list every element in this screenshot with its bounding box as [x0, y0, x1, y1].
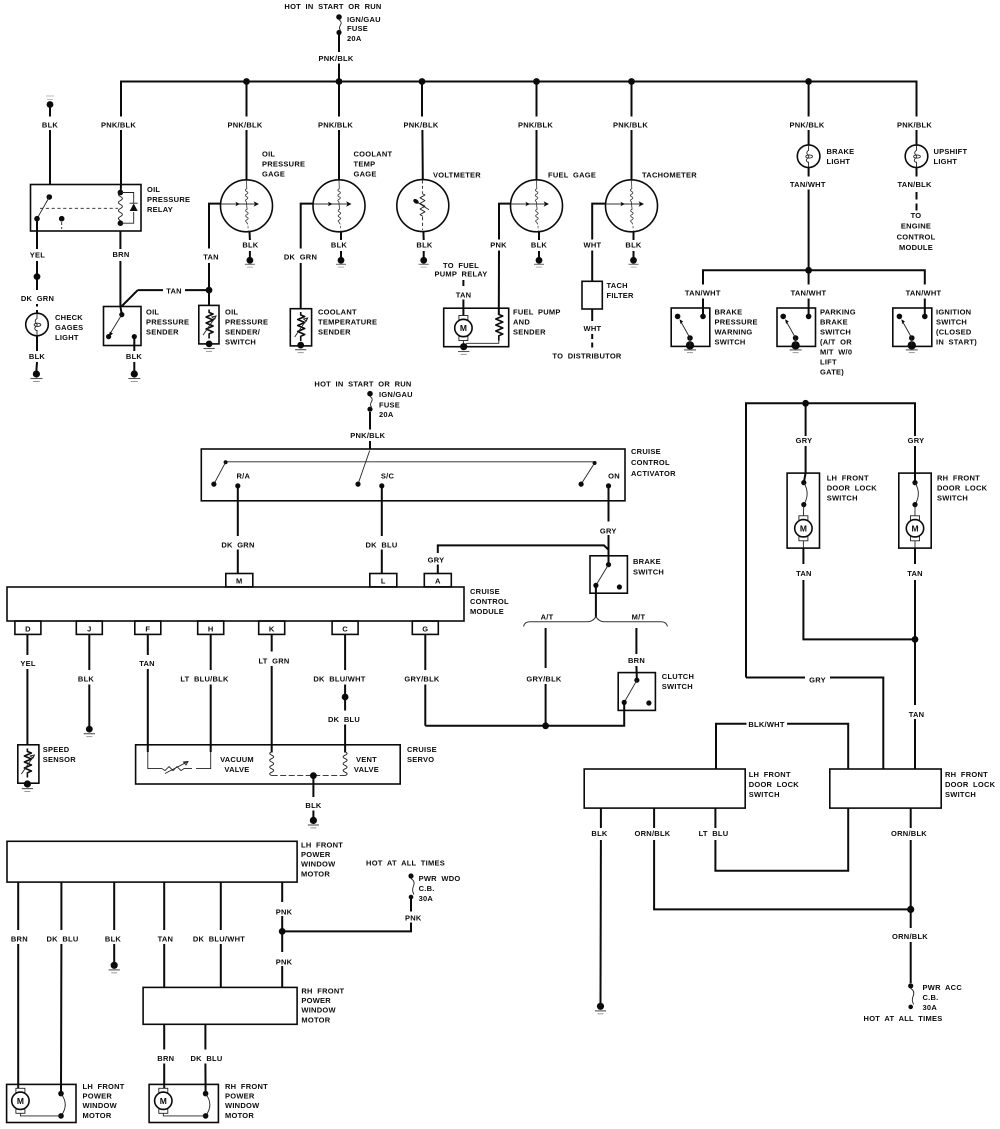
wire BLK below coolant gauge: [340, 232, 342, 258]
switch interior parking: [780, 308, 811, 353]
svg-text:S/C: S/C: [381, 472, 395, 481]
wire BLK below oil gauge: [249, 232, 251, 258]
box cruise control module: [7, 587, 464, 621]
svg-text:M: M: [236, 577, 243, 586]
box clutch switch: [618, 673, 655, 711]
ground oil sender: [128, 370, 140, 381]
sender switch contact bottom: [106, 334, 111, 339]
vent valve bottom link: [272, 775, 345, 777]
svg-text:DOOR LOCK: DOOR LOCK: [749, 780, 800, 789]
svg-text:PUMP RELAY: PUMP RELAY: [434, 270, 487, 279]
svg-text:SWITCH: SWITCH: [937, 494, 968, 503]
node coolant sender ground: [297, 342, 304, 349]
ground coolant sender: [295, 349, 306, 351]
gauge fuel: [511, 180, 563, 232]
motor RH door lock: [906, 516, 923, 541]
varrow coolant sender: [295, 318, 308, 337]
RH window blade arc: [206, 1094, 210, 1116]
wire GRY/BLK from G: [424, 634, 426, 725]
svg-text:OIL: OIL: [225, 308, 238, 317]
breaker PWR ACC C.B. 30A: [908, 983, 914, 1009]
wire BLK below tachometer: [633, 232, 635, 258]
svg-text:C.B.: C.B.: [923, 993, 939, 1002]
relay aux dash link: [61, 222, 63, 229]
svg-text:PARKING: PARKING: [820, 308, 856, 317]
brake switch contact mid: [593, 583, 598, 588]
node TAN junction: [206, 287, 213, 294]
svg-text:GRY/BLK: GRY/BLK: [404, 675, 440, 684]
wire brake switch to brace: [595, 585, 597, 617]
terminal D: [15, 621, 41, 634]
ground oil sender/switch: [204, 348, 215, 350]
wire LT BLU/BLK from H: [210, 634, 212, 752]
motor RH window: [155, 1088, 172, 1113]
svg-text:LH FRONT: LH FRONT: [83, 1082, 125, 1091]
svg-text:GAGE: GAGE: [262, 170, 285, 179]
vacuum valve arrow: [165, 762, 188, 774]
svg-text:WINDOW: WINDOW: [301, 1006, 336, 1015]
svg-text:TAN: TAN: [907, 569, 923, 578]
svg-text:TAN/WHT: TAN/WHT: [790, 180, 826, 189]
resistor oil sender/switch: [206, 310, 213, 339]
node BLK splice (top left): [47, 101, 54, 108]
LH window bottom link: [20, 1113, 61, 1116]
wire DK BLU to vent valve: [344, 697, 346, 753]
wire dashed to ECM: [916, 192, 918, 211]
relay mech dashed link: [40, 207, 118, 209]
wire YEL to splice: [36, 261, 38, 277]
node window BLK ground: [111, 962, 118, 969]
ground coolant gauge: [336, 257, 346, 267]
wire BRN to oil sender: [120, 261, 121, 315]
wire oil gauge drop: [246, 82, 248, 181]
svg-text:GRY: GRY: [908, 436, 925, 445]
svg-text:GAGE: GAGE: [354, 170, 377, 179]
svg-text:BLK: BLK: [78, 675, 94, 684]
wire motor to ground node: [462, 341, 464, 347]
svg-text:BRN: BRN: [113, 250, 130, 259]
vacuum valve frame: [148, 752, 211, 769]
svg-text:UPSHIFT: UPSHIFT: [934, 147, 968, 156]
relay switch blade: [37, 197, 49, 219]
fuse IGN/GAU 20A (cruise): [367, 391, 373, 412]
wire DK BLU (rh window): [204, 1024, 206, 1093]
svg-text:R/A: R/A: [236, 472, 250, 481]
svg-text:TO DISTRIBUTOR: TO DISTRIBUTOR: [552, 352, 622, 361]
relay coil top node: [118, 190, 124, 196]
svg-text:HOT IN START OR RUN: HOT IN START OR RUN: [314, 380, 411, 389]
LH window blade arc: [61, 1094, 65, 1116]
sender blade arrowhead: [109, 332, 113, 337]
wire PNK to fuel sender resistor: [498, 251, 500, 315]
wire BRN from relay: [119, 231, 121, 249]
svg-text:VALVE: VALVE: [354, 765, 379, 774]
svg-text:DK GRN: DK GRN: [284, 253, 317, 262]
svg-text:K: K: [269, 625, 275, 634]
svg-text:COOLANT: COOLANT: [354, 150, 393, 159]
svg-text:BRAKE: BRAKE: [633, 557, 661, 566]
RH window motor top link: [163, 1084, 165, 1088]
svg-text:G: G: [422, 625, 428, 634]
svg-text:30A: 30A: [419, 894, 434, 903]
clutch contact top: [634, 678, 639, 683]
svg-text:POWER: POWER: [301, 850, 331, 859]
wire GRY from A terminal: [438, 545, 609, 573]
wire WHT below tach filter: [591, 309, 593, 321]
wire LT BLU link: [715, 808, 848, 871]
svg-text:RH FRONT: RH FRONT: [945, 770, 988, 779]
svg-text:GRY: GRY: [809, 676, 826, 685]
wire M/T BRN drop: [635, 628, 638, 680]
svg-text:PWR WDO: PWR WDO: [419, 874, 461, 883]
node TAN junction: [912, 636, 919, 643]
svg-text:SENDER: SENDER: [146, 328, 179, 337]
ground servo: [308, 824, 319, 826]
svg-text:BLK: BLK: [105, 935, 121, 944]
wire check light to ground: [35, 336, 38, 371]
svg-text:BLK/WHT: BLK/WHT: [748, 720, 784, 729]
svg-text:FUEL PUMP: FUEL PUMP: [513, 308, 561, 317]
wire TAN from oil gauge: [209, 204, 221, 249]
wire BLK (lh window ground): [113, 882, 115, 962]
svg-text:ORN/BLK: ORN/BLK: [635, 829, 671, 838]
terminal J: [76, 621, 102, 634]
wire GRY drop LH: [805, 403, 807, 436]
svg-text:IGN/GAU: IGN/GAU: [379, 390, 413, 399]
node S/C blade tip: [355, 482, 360, 487]
wire LT GRN from K: [271, 634, 273, 752]
node fuel pump ground: [460, 343, 467, 350]
svg-text:GAGES: GAGES: [55, 323, 83, 332]
wire TAN down to RH lower switch: [914, 639, 916, 769]
node speed sensor ground: [24, 780, 31, 787]
svg-text:WHT: WHT: [583, 241, 601, 250]
relay diode branch: [120, 193, 133, 224]
svg-text:LH FRONT: LH FRONT: [301, 841, 343, 850]
svg-text:FUEL GAGE: FUEL GAGE: [548, 171, 596, 180]
ground speed sensor: [22, 788, 33, 790]
svg-text:PNK/BLK: PNK/BLK: [403, 121, 438, 130]
box brake switch: [590, 556, 627, 593]
box cruise control activator: [201, 449, 625, 501]
svg-text:TAN/WHT: TAN/WHT: [906, 289, 942, 298]
svg-text:BLK: BLK: [625, 241, 641, 250]
svg-text:DK BLU/WHT: DK BLU/WHT: [193, 935, 245, 944]
wire DK BLU/WHT (window link): [220, 882, 222, 987]
svg-text:CRUISE: CRUISE: [470, 587, 500, 596]
node J ground: [86, 726, 93, 733]
wire TAN from LH lock: [803, 548, 915, 639]
svg-text:TEMP: TEMP: [354, 160, 376, 169]
svg-text:GRY: GRY: [428, 556, 445, 565]
wire TAN from RH lock: [914, 548, 916, 639]
svg-text:LT BLU: LT BLU: [699, 829, 729, 838]
ground oil gauge: [245, 257, 255, 267]
node YEL/DK GRN splice: [34, 273, 41, 280]
LH window motor top link: [17, 1084, 19, 1088]
svg-text:BRN: BRN: [11, 935, 28, 944]
node ON blade tip: [579, 482, 584, 487]
svg-text:GRY/BLK: GRY/BLK: [526, 675, 562, 684]
svg-text:RELAY: RELAY: [147, 205, 173, 214]
svg-text:TACHOMETER: TACHOMETER: [642, 171, 697, 180]
switch interior ignition: [897, 308, 928, 353]
svg-text:DK GRN: DK GRN: [221, 541, 254, 550]
node bus right end: [593, 461, 597, 465]
ground voltmeter: [419, 257, 429, 267]
wire PNK lower (window): [281, 931, 283, 987]
terminal H: [198, 621, 224, 634]
svg-text:DOOR LOCK: DOOR LOCK: [827, 484, 878, 493]
svg-text:SENDER: SENDER: [318, 328, 351, 337]
ground window BLK: [109, 969, 120, 971]
wire GRY LH to switch: [804, 446, 806, 483]
svg-text:VOLTMETER: VOLTMETER: [433, 171, 481, 180]
node bus junction oil gauge: [243, 78, 250, 85]
relay box oil pressure relay: [31, 185, 142, 232]
svg-text:LIGHT: LIGHT: [934, 157, 958, 166]
wire BLK/WHT link: [716, 724, 848, 769]
svg-text:TO: TO: [911, 211, 922, 220]
svg-text:BRAKE: BRAKE: [820, 318, 848, 327]
svg-text:TAN/BLK: TAN/BLK: [898, 180, 932, 189]
relay aux contact: [59, 216, 65, 222]
wire dashed to check light: [36, 304, 38, 314]
svg-text:BLK: BLK: [29, 352, 45, 361]
node bus left end: [224, 460, 228, 464]
wire A/T GRY/BLK drop: [545, 628, 547, 726]
vacuum valve element: [162, 767, 192, 771]
svg-text:SWITCH: SWITCH: [820, 328, 851, 337]
svg-text:BLK: BLK: [242, 241, 258, 250]
wire brake light drop: [808, 82, 810, 146]
svg-text:WINDOW: WINDOW: [83, 1101, 118, 1110]
svg-text:SENSOR: SENSOR: [43, 755, 77, 764]
svg-text:TAN: TAN: [203, 253, 219, 262]
ground fuel gauge: [534, 257, 544, 267]
brake switch blade: [596, 565, 609, 586]
coil vent valve right: [343, 752, 347, 776]
terminal F: [135, 621, 161, 634]
svg-text:M/T: M/T: [632, 613, 646, 622]
svg-text:CONTROL: CONTROL: [470, 597, 509, 606]
box RH front door lock switch (lower): [830, 769, 941, 808]
svg-text:RH FRONT: RH FRONT: [937, 474, 980, 483]
svg-text:ENGINE: ENGINE: [901, 222, 931, 231]
ground fuel pump: [458, 351, 469, 353]
box brake pressure warning switch: [671, 308, 710, 346]
clutch blade: [624, 680, 637, 702]
node bus junction tachometer: [628, 78, 635, 85]
resistor coolant sender: [298, 312, 305, 341]
terminal M: [226, 574, 253, 587]
node bus junction brake light: [805, 78, 812, 85]
gauge voltmeter: [397, 180, 449, 232]
wire ORN/BLK from RH lower: [910, 808, 912, 909]
svg-text:C: C: [342, 625, 348, 634]
svg-text:PRESSURE: PRESSURE: [147, 195, 190, 204]
lamp check gages light: [26, 313, 49, 336]
wire BLK from servo: [312, 776, 314, 817]
svg-text:L: L: [381, 577, 386, 586]
svg-text:MOTOR: MOTOR: [301, 1015, 330, 1024]
svg-text:WINDOW: WINDOW: [225, 1101, 260, 1110]
RH lock contact top: [912, 480, 917, 485]
terminal K: [259, 621, 285, 634]
wire TAN from F: [147, 634, 149, 752]
wire fuel gauge drop: [536, 82, 538, 181]
svg-text:ON: ON: [608, 472, 620, 481]
box RH front door lock switch (motor): [899, 473, 931, 548]
svg-text:DK BLU/WHT: DK BLU/WHT: [313, 675, 365, 684]
activator internal bus: [226, 461, 595, 463]
svg-text:TAN: TAN: [796, 569, 812, 578]
svg-text:FUSE: FUSE: [347, 24, 368, 33]
wire door lock feed bus: [746, 403, 915, 677]
switch blade S/C: [358, 451, 370, 485]
sender switch blade: [111, 315, 122, 333]
svg-text:SENDER/: SENDER/: [225, 328, 261, 337]
wire fuel sender bottom link: [464, 341, 499, 347]
svg-text:OIL: OIL: [146, 308, 159, 317]
wire coolant gauge drop: [338, 82, 340, 181]
varrow oil sender/switch: [203, 316, 216, 335]
svg-text:DOOR LOCK: DOOR LOCK: [937, 484, 988, 493]
svg-text:MODULE: MODULE: [470, 607, 504, 616]
wire BRN (rh window): [163, 1024, 165, 1088]
varrow speed sensor: [21, 755, 34, 774]
svg-text:BRAKE: BRAKE: [827, 147, 855, 156]
wire dashed fuel pump relay: [462, 280, 464, 286]
ground check gages light: [30, 370, 42, 381]
svg-text:PNK/BLK: PNK/BLK: [101, 121, 136, 130]
svg-text:SERVO: SERVO: [407, 755, 434, 764]
RH window contact top: [203, 1091, 209, 1097]
svg-text:CONTROL: CONTROL: [631, 458, 670, 467]
svg-text:LIFT: LIFT: [820, 358, 837, 367]
svg-text:MOTOR: MOTOR: [225, 1111, 254, 1120]
svg-text:PNK: PNK: [405, 914, 422, 923]
svg-text:PNK: PNK: [490, 241, 507, 250]
svg-text:HOT AT ALL TIMES: HOT AT ALL TIMES: [366, 859, 445, 868]
box RH front power window motor (switch assembly): [143, 987, 297, 1024]
svg-text:OIL: OIL: [262, 150, 275, 159]
node R/A output: [235, 483, 240, 488]
svg-text:IN START): IN START): [936, 338, 977, 347]
box fuel pump and sender: [444, 308, 509, 347]
wire relay feed into coil: [120, 185, 122, 193]
svg-text:A/T: A/T: [541, 613, 554, 622]
diode CR1: [130, 204, 138, 212]
svg-text:SWITCH: SWITCH: [936, 318, 967, 327]
wire DK GRN from coolant gauge: [301, 204, 314, 249]
svg-text:TAN/WHT: TAN/WHT: [685, 289, 721, 298]
svg-text:MOTOR: MOTOR: [83, 1111, 112, 1120]
svg-text:YEL: YEL: [30, 251, 46, 260]
svg-text:CLUTCH: CLUTCH: [662, 672, 694, 681]
wire PNK to breaker: [282, 899, 411, 932]
LH window contact bottom: [58, 1113, 64, 1119]
terminal L: [370, 574, 397, 587]
wire PNK upper (window): [281, 882, 283, 931]
coil vent valve left: [270, 752, 274, 776]
box LH front door lock switch (lower): [584, 769, 745, 808]
terminal C: [332, 621, 358, 634]
wire DK BLU/WHT from C: [344, 634, 346, 697]
svg-text:GRY: GRY: [600, 527, 617, 536]
LH lock motor to box bottom: [802, 541, 804, 548]
svg-text:TAN: TAN: [909, 710, 925, 719]
sender switch contact top: [119, 312, 124, 317]
node TAN/WHT junction: [805, 267, 812, 274]
svg-text:RH FRONT: RH FRONT: [301, 987, 344, 996]
svg-text:GRY: GRY: [796, 436, 813, 445]
wire main PNK/BLK bus: [121, 82, 917, 185]
svg-text:RH FRONT: RH FRONT: [225, 1082, 268, 1091]
resistor speed sensor: [24, 749, 31, 778]
svg-text:ORN/BLK: ORN/BLK: [892, 932, 928, 941]
svg-text:FILTER: FILTER: [607, 291, 635, 300]
breaker PWR WDO C.B. 30A: [408, 873, 414, 899]
svg-text:D: D: [25, 625, 31, 634]
switch blade ON: [581, 463, 595, 484]
node bus junction fuse: [336, 78, 343, 85]
svg-text:BLK: BLK: [42, 121, 58, 130]
voltmeter interior: [421, 181, 423, 194]
wire TAN branch diagonal: [122, 290, 138, 306]
svg-text:MODULE: MODULE: [899, 243, 933, 252]
RH lock motor to box bottom: [914, 541, 916, 548]
svg-text:CRUISE: CRUISE: [407, 745, 437, 754]
svg-text:PNK/BLK: PNK/BLK: [318, 54, 353, 63]
motor fuel pump: [455, 316, 472, 341]
LH lock link to motor: [802, 505, 804, 516]
svg-text:SWITCH: SWITCH: [749, 790, 780, 799]
clutch contact aux: [646, 700, 651, 705]
gauge oil pressure: [221, 180, 273, 232]
wire WHT from tachometer: [592, 204, 606, 240]
wire YEL from relay: [36, 219, 38, 249]
svg-text:VALVE: VALVE: [224, 765, 249, 774]
svg-text:LIGHT: LIGHT: [827, 157, 851, 166]
brake switch contact aux: [617, 584, 622, 589]
switch blade R/A: [214, 462, 226, 484]
wire GRY ON to brake switch: [608, 486, 610, 565]
svg-text:(A/T OR: (A/T OR: [820, 338, 852, 347]
box LH front power window motor (switch assembly): [7, 841, 297, 882]
svg-text:COOLANT: COOLANT: [318, 308, 357, 317]
switch interior bpw: [675, 308, 706, 353]
box parking brake switch: [777, 308, 816, 346]
svg-text:LT GRN: LT GRN: [258, 657, 289, 666]
svg-text:SPEED: SPEED: [43, 745, 70, 754]
box LH front door lock switch (motor): [787, 473, 819, 548]
wire TAN to fuel pump: [462, 300, 464, 316]
terminal A: [424, 574, 451, 587]
svg-text:HOT IN START OR RUN: HOT IN START OR RUN: [284, 2, 381, 11]
svg-text:SWITCH: SWITCH: [662, 682, 693, 691]
svg-text:FUSE: FUSE: [379, 401, 400, 410]
wire BLK below fuel gauge: [538, 232, 540, 258]
wire ORN/BLK from LH lower: [654, 808, 911, 909]
wire dashed to distributor: [591, 334, 593, 348]
wire TAN/WHT bus: [703, 270, 925, 308]
svg-text:SWITCH: SWITCH: [225, 338, 256, 347]
svg-text:M/T W/0: M/T W/0: [820, 348, 852, 357]
lamp brake light: [797, 145, 820, 168]
svg-text:MOTOR: MOTOR: [301, 869, 330, 878]
svg-text:A: A: [435, 577, 441, 586]
